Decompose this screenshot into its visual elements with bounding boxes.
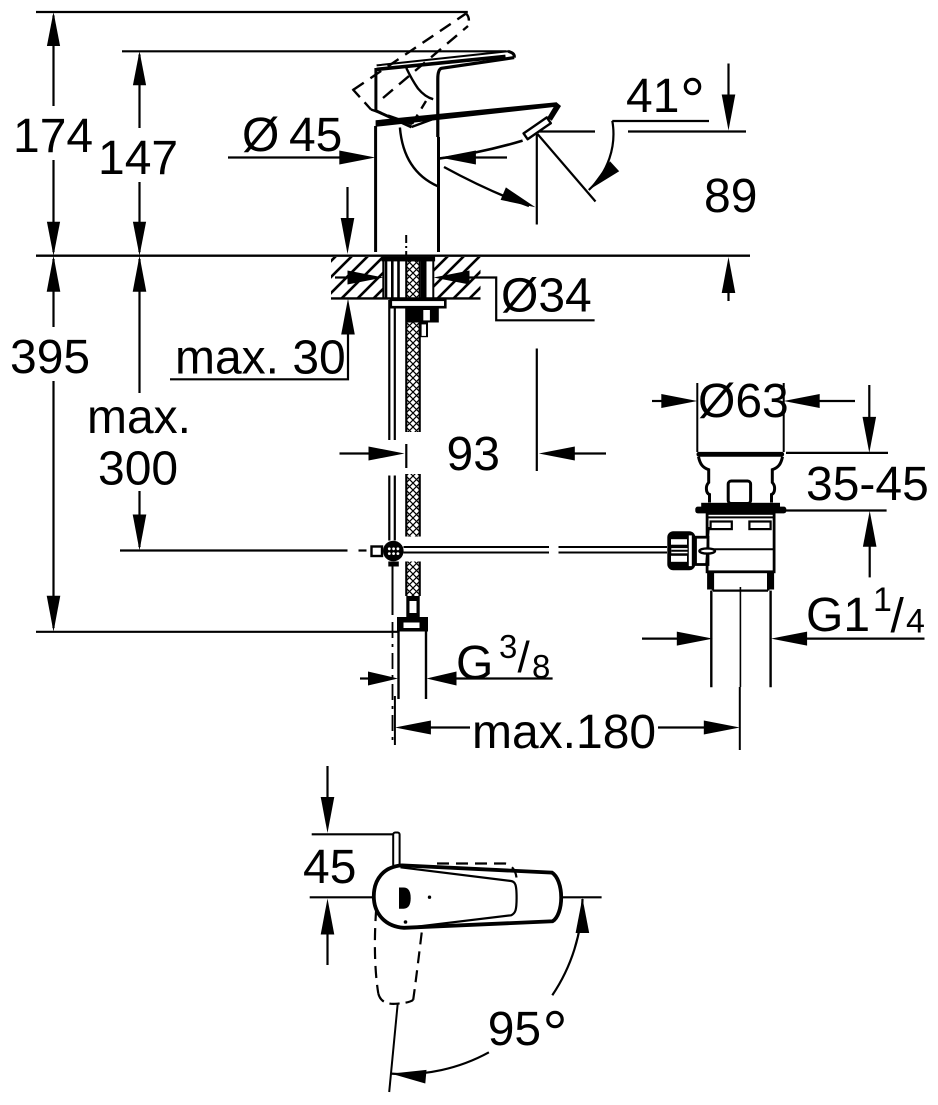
threaded mounting rod — [389, 300, 395, 541]
dimension 41 deg — [537, 70, 709, 471]
spout swivel arc with arrow — [444, 167, 529, 206]
pop-up waste black collar nut — [701, 503, 780, 509]
dimension 174 — [13, 12, 93, 256]
mounting nut lower step — [420, 323, 428, 338]
flexible hose (cross-hatched) upper segment — [406, 257, 419, 432]
raised handle (dashed) — [353, 14, 469, 125]
spout direction line — [538, 134, 596, 202]
pivot ball ellipse — [699, 548, 715, 553]
svg-text:174: 174 — [13, 110, 93, 163]
svg-text:8: 8 — [532, 648, 550, 685]
pop-up waste body — [707, 513, 774, 571]
swivel reference line — [389, 1004, 398, 1092]
joint left nib — [372, 547, 383, 557]
shank lines in counter hole — [386, 257, 399, 298]
supply pipe — [399, 632, 427, 700]
pull rod tail below joint — [392, 563, 394, 615]
spout underside — [439, 141, 523, 159]
dimension max. 30 — [170, 187, 355, 385]
svg-text:93: 93 — [447, 428, 500, 481]
pivot rod (tilted) — [706, 527, 709, 565]
swivelled handle (dashed) — [375, 909, 422, 1004]
handle knob bottom slant — [376, 111, 412, 127]
dimension 395 — [10, 256, 90, 632]
dimension max.180 — [395, 687, 740, 759]
shank black bar in hole — [421, 257, 427, 298]
aerator — [524, 117, 551, 139]
flexible hose lower segment — [406, 562, 419, 597]
spout joint seam arc — [400, 128, 438, 187]
pop-up waste upper body (tapered neck) — [699, 457, 783, 503]
svg-text:Ø 45: Ø 45 — [242, 109, 342, 162]
handle knob left edge — [374, 68, 377, 111]
svg-text:G: G — [456, 637, 493, 690]
small dots — [428, 896, 431, 899]
ref line bottom (supply end level) — [36, 631, 399, 633]
svg-text:Ø34: Ø34 — [501, 270, 592, 323]
dimension 35-45 — [786, 385, 929, 577]
dimension Ø45 — [228, 109, 507, 165]
center line below (dash-dot) — [392, 622, 394, 745]
waste center line — [739, 587, 741, 687]
hose end fitting — [406, 596, 419, 617]
svg-text:95: 95 — [488, 1003, 541, 1056]
svg-text:147: 147 — [98, 132, 178, 185]
counter cross-section hatched left — [331, 257, 383, 298]
content — [36, 12, 750, 632]
95 deg arc upper — [552, 899, 582, 995]
dimension 147 — [98, 51, 178, 255]
faucet base plate (visible in hole) — [382, 257, 436, 262]
waste drain pipe G1 1/4 — [711, 591, 770, 688]
dimension Ø63 — [652, 375, 855, 452]
handle lever underside and neck — [438, 58, 514, 137]
pop-up waste square knob — [728, 481, 750, 504]
svg-text:4: 4 — [906, 603, 925, 641]
ref line counter top — [36, 254, 750, 256]
dimension 89 — [538, 64, 757, 302]
spout tip curve — [547, 102, 561, 121]
pop-up waste top flange — [697, 452, 785, 457]
svg-text:/: / — [518, 633, 531, 682]
mounting washer — [391, 300, 446, 307]
ref line max300 level — [120, 549, 348, 551]
faucet body left edge — [374, 126, 377, 252]
waste tailpiece step — [707, 572, 774, 591]
svg-text:45: 45 — [303, 841, 356, 894]
svg-text:G1: G1 — [806, 589, 870, 642]
knurled pivot nut — [667, 531, 695, 570]
handle open position (dashed) — [437, 864, 517, 878]
pivot bracket — [696, 537, 709, 564]
svg-text:max. 30: max. 30 — [175, 332, 346, 385]
svg-text:max.: max. — [87, 391, 191, 444]
cartridge dome arc — [406, 68, 433, 99]
svg-text:41: 41 — [626, 70, 679, 123]
dimension Ø34 — [335, 270, 595, 323]
svg-text:3: 3 — [499, 628, 517, 665]
dimension G 3/8 — [360, 628, 553, 690]
dimension G1 1/4 — [642, 581, 925, 646]
ref line top (raised handle tip level) — [36, 11, 468, 13]
handle lever (solid, closed) — [377, 51, 508, 65]
svg-text:89: 89 — [704, 170, 757, 223]
top ref line — [312, 833, 395, 835]
flexible hose middle segment — [406, 474, 419, 537]
vertical ref at aerator — [536, 134, 538, 225]
95 deg arc lower with arrow — [391, 1052, 489, 1074]
svg-text:300: 300 — [98, 443, 178, 496]
svg-text:/: / — [891, 590, 905, 643]
G3/8 nut — [397, 617, 428, 632]
svg-text:395: 395 — [10, 331, 90, 384]
handle outline (top view) — [374, 865, 561, 927]
svg-text:max.180: max.180 — [472, 706, 656, 759]
handle logo mark — [399, 888, 411, 909]
spout top edge band — [376, 102, 559, 127]
dimension 93 — [340, 428, 607, 481]
faucet axis center line — [405, 235, 407, 257]
dimension 45 up arrow — [321, 899, 335, 935]
handle pin — [393, 833, 399, 867]
ref line handle top level — [122, 50, 506, 52]
mounting nut upper — [407, 307, 439, 322]
center line pieces — [310, 896, 374, 898]
dimension 45 down arrow — [326, 766, 328, 800]
svg-text:Ø63: Ø63 — [698, 375, 789, 428]
pull-rod ball joint — [383, 541, 404, 567]
handle inner contour — [401, 867, 517, 928]
svg-text:35-45: 35-45 — [806, 458, 929, 511]
counter hole edges — [382, 257, 384, 298]
svg-text:1: 1 — [873, 581, 892, 619]
counter cross-section hatched right — [433, 257, 480, 298]
counter bottom line — [331, 297, 481, 299]
faucet body right edge — [437, 137, 440, 252]
dimension max. 300 — [87, 256, 191, 551]
pop-up actuating rod (horizontal) — [404, 547, 668, 553]
